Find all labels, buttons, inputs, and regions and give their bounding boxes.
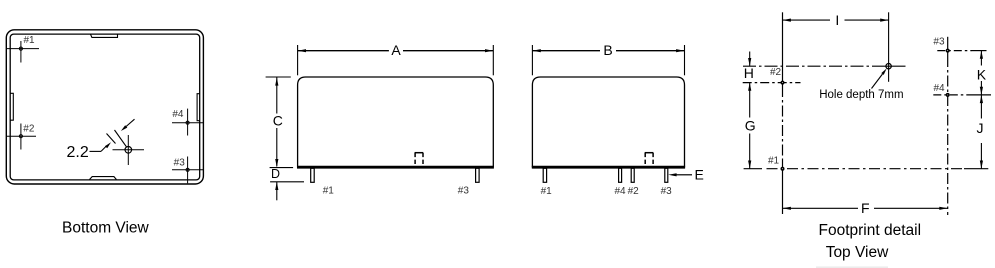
svg-text:F: F	[861, 200, 870, 216]
svg-text:#3: #3	[933, 36, 945, 47]
svg-text:E: E	[695, 167, 704, 183]
svg-text:#1: #1	[541, 186, 553, 197]
svg-text:K: K	[977, 66, 987, 82]
svg-text:2.2: 2.2	[67, 144, 89, 161]
svg-text:#3: #3	[174, 158, 186, 169]
svg-text:J: J	[977, 120, 984, 136]
svg-text:Top View: Top View	[826, 244, 889, 261]
svg-text:#1: #1	[24, 35, 36, 46]
svg-text:Footprint detail: Footprint detail	[819, 222, 922, 239]
svg-text:A: A	[391, 42, 401, 58]
svg-text:I: I	[835, 12, 839, 28]
svg-text:Bottom View: Bottom View	[62, 219, 150, 236]
svg-text:#3: #3	[458, 185, 470, 196]
svg-text:#2: #2	[23, 124, 35, 135]
svg-text:#1: #1	[768, 156, 780, 167]
svg-text:D: D	[271, 167, 280, 181]
svg-text:#2: #2	[770, 67, 782, 78]
svg-text:C: C	[273, 113, 283, 129]
svg-text:#1: #1	[323, 185, 335, 196]
svg-text:#2: #2	[628, 186, 640, 197]
svg-text:#4: #4	[172, 109, 184, 120]
svg-text:B: B	[603, 42, 612, 58]
svg-text:#4: #4	[615, 186, 627, 197]
svg-text:G: G	[745, 118, 756, 134]
svg-text:Hole depth 7mm: Hole depth 7mm	[819, 89, 903, 101]
svg-text:H: H	[744, 65, 754, 81]
svg-text:#4: #4	[934, 83, 946, 94]
svg-text:#3: #3	[661, 186, 673, 197]
